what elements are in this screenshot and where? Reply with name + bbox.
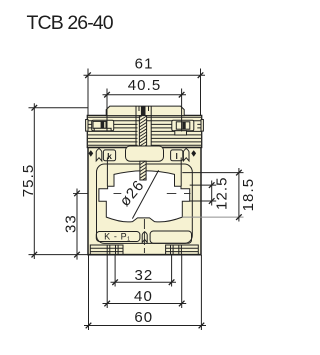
dimension line 18.5 [238, 168, 240, 222]
ticks 33 [74, 191, 80, 258]
ticks 18.5 [236, 170, 242, 220]
dimension line 32 [111, 281, 177, 283]
right foot slot edges [171, 245, 182, 255]
right terminal screw head [176, 122, 190, 129]
left screw slot [101, 121, 105, 128]
left seal banner [96, 149, 102, 161]
left terminal sub plate [94, 128, 111, 131]
ticks 75.5 [32, 105, 38, 257]
svg-text:K - P₁: K - P₁ [104, 232, 131, 242]
left terminal screw head [93, 121, 106, 128]
main transformer body [88, 148, 201, 255]
moulding seam lines [107, 158, 181, 187]
left side lug [86, 120, 88, 132]
svg-text:40: 40 [134, 288, 153, 305]
clamp screw rod lower hatched [140, 161, 146, 180]
central label tray [126, 146, 164, 161]
svg-text:12.5: 12.5 [214, 176, 231, 210]
right terminal sub plate [175, 131, 187, 135]
terminal cover cap [106, 106, 184, 116]
window opening [99, 171, 190, 222]
right side lug [201, 120, 203, 132]
extension lines 18.5 and 12.5 [182, 173, 243, 201]
right seal banner [183, 149, 189, 161]
right foot rails [166, 248, 199, 251]
ticks 40.5 [104, 92, 184, 98]
extension lines 75.5 [29, 108, 89, 255]
horizontal centreline dashes [73, 192, 191, 194]
svg-text:18.5: 18.5 [240, 178, 257, 212]
ticks 12.5 [209, 182, 215, 204]
left foot rails [90, 248, 123, 251]
ticks 61 [85, 72, 203, 78]
terminal block body [87, 115, 201, 147]
svg-text:32: 32 [134, 267, 153, 284]
K-P1 label box [96, 232, 140, 242]
terminal fin line row 4 [88, 130, 201, 132]
diameter leader line [132, 170, 158, 218]
terminal fin line row 6 [88, 137, 201, 139]
bottom seal banner [142, 232, 147, 243]
vertical centreline dashes [143, 219, 145, 253]
dimension line 12.5 [211, 181, 213, 206]
bottom right tray [150, 231, 191, 243]
right terminal screw box [172, 120, 194, 130]
terminal fin line row 7 [88, 141, 201, 143]
dimension line 40.5 [103, 94, 187, 96]
dimension line 75.5 [33, 103, 35, 259]
left foot slot edges [107, 245, 118, 255]
clamp screw shaft upper hatched [137, 110, 151, 151]
svg-text:40.5: 40.5 [128, 77, 162, 94]
left terminal screw box [92, 120, 114, 130]
extension lines 40 [107, 255, 182, 308]
svg-text:75.5: 75.5 [20, 164, 37, 198]
terminal fin line row 5 [88, 134, 201, 136]
cap notch marks [139, 106, 149, 111]
centre screw slot [141, 106, 146, 115]
terminal fin line row 2 [88, 123, 201, 125]
dimension line 60 [84, 325, 206, 327]
ticks 32 [112, 279, 174, 285]
extension lines 60 [89, 255, 202, 330]
extension lines 40.5 [107, 89, 182, 132]
dimension line 33 [76, 189, 78, 260]
svg-text:TCB 26-40: TCB 26-40 [27, 12, 114, 34]
ticks 60 [86, 323, 205, 329]
extension line 18.5 bottom grey [182, 216, 243, 218]
body bottom edge [88, 254, 201, 256]
extension lines 61 [88, 69, 201, 117]
ticks 40 [104, 301, 184, 307]
svg-text:l: l [176, 151, 178, 161]
terminal k box [103, 150, 115, 161]
svg-text:60: 60 [134, 309, 153, 326]
left mounting foot [90, 245, 123, 255]
terminal fin line row 3 [88, 127, 201, 129]
right screw slot [182, 122, 185, 129]
svg-text:k: k [107, 151, 112, 161]
terminal fin line row 8 [88, 144, 201, 146]
left diamond marker [89, 150, 94, 157]
dimension line 40 [103, 303, 187, 305]
svg-text:33: 33 [63, 214, 80, 233]
right diamond marker [191, 150, 196, 157]
inner moulding outline [97, 164, 193, 243]
svg-text:61: 61 [135, 55, 154, 72]
dimension line 61 [84, 74, 206, 76]
terminal l box [171, 150, 183, 161]
right mounting foot [166, 245, 199, 255]
extension lines 32 [115, 255, 172, 287]
terminal fin line row 1 [88, 117, 201, 121]
centre screw channel walls [136, 106, 151, 147]
